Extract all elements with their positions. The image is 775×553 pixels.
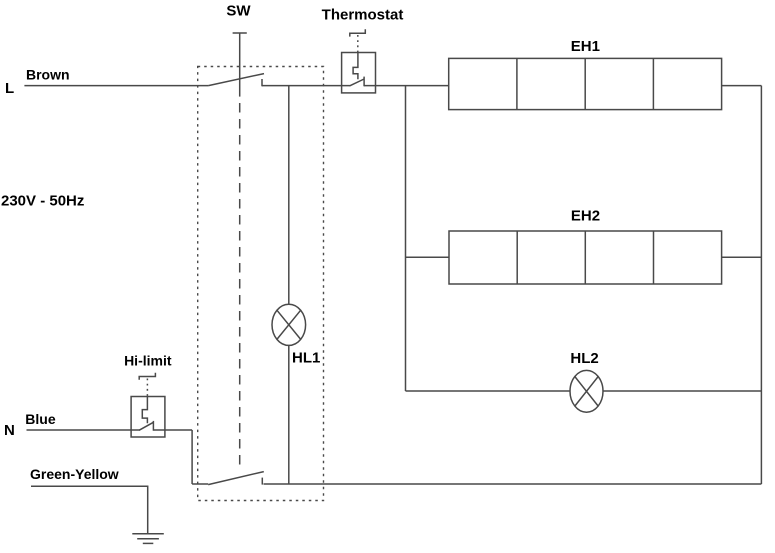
- resistor EH2 body: [449, 231, 722, 284]
- hi-limit contact blade: [139, 422, 153, 430]
- enclosure dashed box (switch unit): [198, 67, 324, 501]
- switch SW pole 2 right contact post: [261, 478, 263, 485]
- lamp HL1 top lead: [288, 86, 290, 305]
- switch SW pole 1 blade: [208, 74, 264, 86]
- hi-limit box: [131, 397, 165, 438]
- svg-text:Brown: Brown: [26, 67, 70, 83]
- wire N riser: [191, 430, 193, 484]
- wire HL2 left: [406, 390, 571, 392]
- switch SW actuator stem solid: [239, 33, 241, 97]
- ground bar 1: [132, 533, 164, 535]
- wire SW pole 1 to thermostat: [262, 85, 350, 87]
- ground bar 3: [143, 542, 154, 544]
- hi-limit dotted stem: [146, 379, 148, 397]
- wire bottom return: [264, 483, 762, 485]
- hi-limit sensing element zigzag: [142, 397, 147, 424]
- lamp HL2 body: [570, 370, 603, 412]
- wire right bus vertical: [760, 86, 762, 484]
- switch SW actuator stem dashed link: [239, 103, 241, 471]
- svg-text:HL1: HL1: [292, 349, 320, 366]
- svg-text:Green-Yellow: Green-Yellow: [30, 466, 119, 482]
- switch SW pole 2 blade: [208, 472, 264, 485]
- wire left bus vertical: [405, 86, 407, 391]
- resistor EH1 divider 2: [584, 58, 586, 109]
- thermostat sensing element zigzag: [353, 53, 358, 80]
- wire L feed: [24, 85, 208, 87]
- svg-text:230V - 50Hz: 230V - 50Hz: [1, 193, 84, 210]
- lamp HL1 bottom lead: [288, 345, 290, 484]
- switch SW pole 1 right contact post: [261, 79, 263, 86]
- lamp HL1 cross stroke 1: [277, 310, 301, 339]
- resistor EH2 divider 3: [653, 231, 655, 284]
- svg-text:Thermostat: Thermostat: [322, 7, 404, 24]
- hi-limit manual cap: [139, 373, 155, 380]
- resistor EH1 body: [449, 58, 722, 109]
- svg-text:L: L: [5, 80, 14, 97]
- wire N riser stub: [192, 483, 208, 485]
- wire EH2 right: [722, 256, 762, 258]
- svg-text:SW: SW: [226, 3, 251, 20]
- thermostat dotted stem: [357, 35, 359, 53]
- svg-text:EH1: EH1: [571, 38, 600, 55]
- resistor EH1 divider 1: [516, 58, 518, 109]
- lamp HL1 cross stroke 2: [277, 310, 301, 339]
- svg-text:EH2: EH2: [571, 207, 600, 224]
- resistor EH2 divider 2: [584, 231, 586, 284]
- svg-text:Hi-limit: Hi-limit: [124, 352, 172, 368]
- hi-limit right contact post: [152, 421, 154, 431]
- thermostat right contact post: [363, 77, 365, 87]
- resistor EH2 divider 1: [516, 231, 518, 284]
- wire Green-Yellow: [31, 486, 148, 534]
- lamp HL2 cross stroke 2: [575, 377, 598, 407]
- wire hi-limit to switch: [153, 429, 192, 431]
- wire HL2 right: [603, 390, 761, 392]
- lamp HL2 cross stroke 1: [575, 377, 598, 407]
- thermostat manual cap: [350, 29, 366, 36]
- thermostat contact blade: [350, 79, 365, 86]
- svg-text:N: N: [4, 422, 15, 439]
- wire thermostat to EH1: [364, 85, 449, 87]
- resistor EH1 divider 3: [652, 58, 654, 109]
- wire EH1 right: [722, 85, 762, 87]
- switch SW actuator stem cap: [233, 32, 247, 34]
- wire N feed: [27, 429, 140, 431]
- wire EH2 left: [406, 256, 450, 258]
- thermostat box: [342, 53, 376, 93]
- svg-text:Blue: Blue: [25, 411, 56, 427]
- svg-text:HL2: HL2: [570, 350, 598, 367]
- ground bar 2: [137, 538, 159, 540]
- lamp HL1 body: [272, 304, 306, 345]
